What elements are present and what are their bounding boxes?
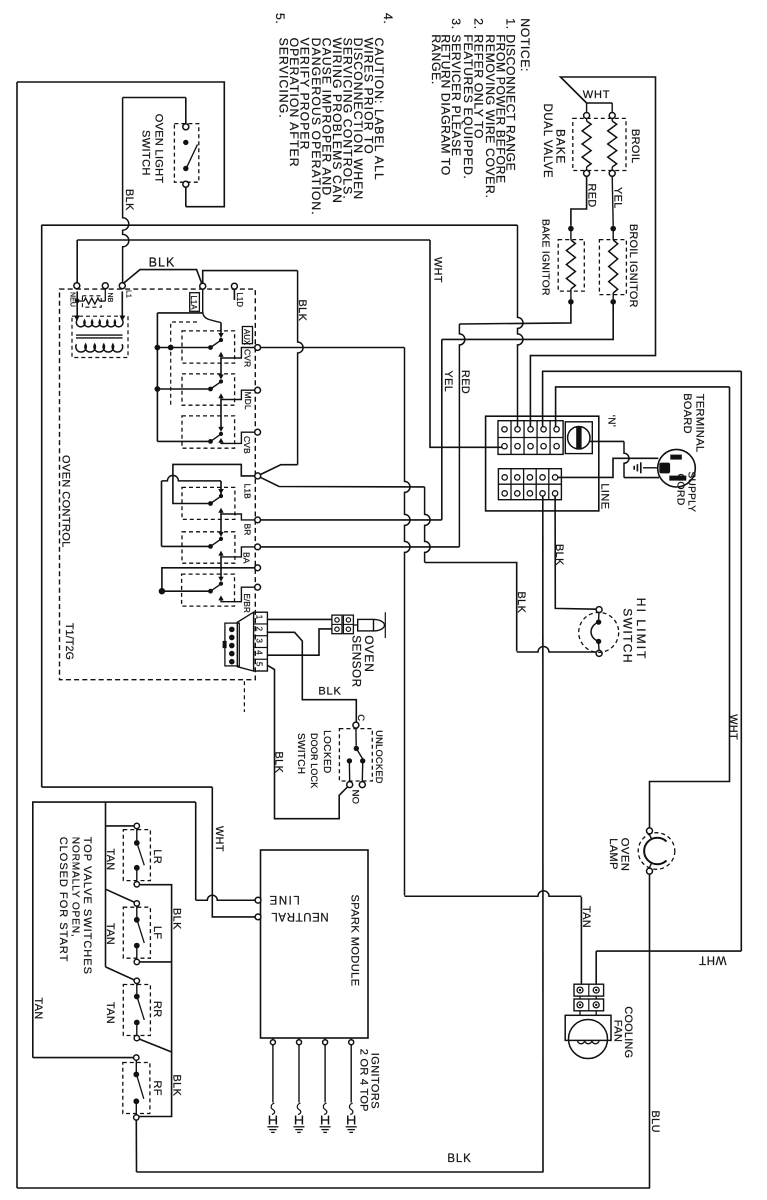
wire BLK bus L1A to L1B vertical (with hop over CVR wire): [203, 271, 298, 284]
fuse F1 between NEU and NB: [76, 291, 78, 315]
wire col4 long BLK vertical to bottom run: [542, 496, 544, 1172]
svg-text:L1: L1: [124, 290, 131, 298]
svg-text:TAN: TAN: [104, 849, 116, 871]
svg-text:NORMALLY OPEN,: NORMALLY OPEN,: [69, 837, 80, 938]
wire BA relay output: [261, 546, 460, 548]
wire L1B/BR fixed contact to BA feed (hop over feed): [220, 481, 222, 496]
transformer T1 primary coil: [76, 320, 123, 327]
oven sensor connector blocks: [332, 615, 342, 634]
wire BR relay output: [261, 519, 442, 521]
wire col5 BLK to hi-limit top: [555, 496, 596, 609]
svg-text:TAN: TAN: [580, 906, 592, 928]
wire RED vertical to BA relay (hop over YEL): [459, 324, 465, 547]
relay L1B/BR (oven control): [208, 501, 213, 506]
wire WHT right edge (col4) down to fan junction: [740, 371, 742, 951]
svg-text:BROIL IGNITOR: BROIL IGNITOR: [627, 224, 639, 308]
resistor broil ignitor: [612, 231, 614, 240]
wire L1B feed loop to relay L1B/BR pivot: [173, 464, 255, 503]
svg-text:WHT: WHT: [727, 714, 739, 740]
svg-text:RED: RED: [459, 370, 471, 394]
spark module box: [261, 850, 369, 1038]
dashed box relay E/BR: [182, 574, 235, 606]
wire L1A to AUX contact: [203, 289, 221, 323]
wire P1 pin1 to oven sensor: [267, 618, 332, 620]
wire col4 cross to right WHT run: [543, 371, 742, 426]
svg-text:CVR: CVR: [242, 349, 252, 367]
svg-text:OVEN CONTROL: OVEN CONTROL: [60, 455, 72, 548]
svg-text:OVEN: OVEN: [618, 838, 630, 872]
terminal board lower block: [498, 469, 561, 500]
svg-text:LOCKED: LOCKED: [321, 730, 332, 774]
wire L1B output to terminal board / hi-limit: [260, 477, 424, 487]
dashed box transformer: [72, 316, 128, 357]
transformer T1 core: [76, 334, 123, 336]
dashed box relay L1B/BR: [182, 487, 235, 519]
svg-text:BR: BR: [243, 524, 253, 536]
wire N terminal to supply cord (hop): [590, 440, 624, 442]
wire feed to AUX pivot: [157, 347, 210, 349]
svg-text:BLK: BLK: [318, 686, 341, 698]
svg-text:FAN: FAN: [612, 1020, 624, 1043]
wire bus A: left vertical x=41.7 down to valve-switch area: [41, 225, 43, 787]
connector P1 wire-side (5 pins): [225, 623, 239, 666]
svg-text:SPARK MODULE: SPARK MODULE: [348, 895, 360, 987]
svg-text:TERMINAL: TERMINAL: [693, 394, 705, 453]
wire top border to oven light loop: [17, 82, 224, 207]
wire col2 from bus A (hops RED YEL): [518, 225, 524, 426]
wire feed to CVB pivot: [157, 440, 210, 442]
transformer T1 secondary coil: [76, 344, 123, 352]
svg-text:2 OR 4 TOP: 2 OR 4 TOP: [357, 1049, 369, 1112]
wire bus B (neutral WHT) y=240: [77, 239, 430, 241]
oven sensor probe: [353, 624, 357, 626]
svg-text:L1A: L1A: [189, 296, 198, 311]
svg-text:BLK: BLK: [515, 592, 527, 614]
node bake ignitor top: [568, 226, 574, 232]
svg-text:E/BR: E/BR: [242, 594, 251, 614]
svg-text:SERVICING.: SERVICING.: [277, 38, 291, 119]
svg-text:DOOR LOCK: DOOR LOCK: [309, 733, 319, 788]
svg-text:YEL: YEL: [611, 187, 623, 209]
label AUX: [242, 327, 252, 344]
svg-text:BLK: BLK: [149, 256, 176, 270]
svg-text:3: 3: [255, 638, 264, 643]
valve switch RF: [134, 1055, 139, 1060]
svg-text:BROIL: BROIL: [629, 129, 641, 164]
terminal L1D: [231, 283, 237, 289]
wire TAN diag to LF: [106, 889, 135, 902]
dashed box relay BA: [182, 532, 235, 563]
wire RF bottom to bottom BLK run: [135, 1120, 137, 1172]
wire P1 pin4 to oven sensor: [267, 629, 332, 655]
svg-text:LF: LF: [151, 926, 163, 939]
svg-text:BLK: BLK: [447, 1153, 471, 1165]
node broil ignitor bottom: [610, 299, 616, 305]
wire WHT top run (valve to right side): [530, 77, 655, 427]
dashed circle hi limit: [579, 612, 619, 652]
svg-text:BLK: BLK: [553, 544, 565, 566]
terminal board upper block: [498, 421, 563, 455]
wire L1 to transformer: [121, 291, 123, 315]
terminal circle (E/BR feed): [255, 565, 261, 571]
svg-text:NEUTRAL: NEUTRAL: [271, 910, 329, 922]
wire LR bottom to BLK chain: [139, 885, 172, 1117]
resistor broil valve coil: [611, 118, 613, 121]
svg-text:RED: RED: [585, 184, 597, 208]
dashed box relay MDL: [182, 374, 235, 405]
terminal NEUTRAL (spark module): [255, 914, 261, 920]
svg-text:NO: NO: [349, 790, 360, 805]
terminal L1A with label box: [200, 283, 206, 289]
svg-text:5: 5: [255, 662, 264, 667]
svg-text:NB: NB: [106, 293, 113, 303]
svg-text:CVB: CVB: [242, 436, 252, 454]
svg-text:CLOSED FOR START: CLOSED FOR START: [57, 837, 69, 963]
svg-text:SWITCH: SWITCH: [621, 608, 635, 664]
wire YEL broil valve to ignitor: [612, 176, 613, 226]
valve switch LR: [134, 823, 139, 828]
terminal LINE (spark module): [255, 897, 261, 903]
wire col5 cross to oven lamp run: [556, 387, 730, 427]
wire bottom border: [17, 1187, 650, 1189]
wire CVR output long vertical: [261, 347, 405, 349]
wire bake ignitor to RED run: [459, 304, 571, 324]
wire BLK bus from L1 to L1A: [124, 270, 202, 284]
svg-text:TAN: TAN: [104, 923, 116, 945]
svg-text:NEU: NEU: [69, 292, 76, 307]
wire bottom BLK run: [137, 1171, 544, 1173]
wire left feed bus (L1A to relay pivots): [157, 312, 202, 314]
ground symbol (supply cord): [643, 467, 659, 469]
svg-text:BLK: BLK: [296, 300, 308, 322]
transformer T1 primary arrows: [74, 316, 80, 322]
svg-text:WHT: WHT: [432, 257, 444, 283]
svg-text:2.: 2.: [471, 18, 485, 29]
dashed box oven light switch: [174, 124, 198, 183]
wire hi limit bottom to L1B wire (hop over BLK): [517, 647, 597, 653]
dashed box dual valve: [573, 118, 626, 170]
dashed box relay AUX/CVR: [182, 331, 235, 363]
wire RR bottom to chain: [140, 1039, 172, 1052]
svg-text:BAKE: BAKE: [554, 129, 568, 164]
svg-text:SWITCH: SWITCH: [295, 733, 306, 774]
cooling fan motor: [565, 1015, 611, 1040]
dashed box broil ignitor: [599, 240, 626, 295]
svg-text:SENSOR: SENSOR: [349, 635, 362, 687]
svg-text:UNLOCKED: UNLOCKED: [374, 730, 384, 784]
svg-text:LINE: LINE: [268, 893, 300, 905]
bake/broil valve top bar: [587, 102, 613, 104]
relay AUX/CVR (oven control): [208, 345, 213, 350]
node bake ignitor bottom: [568, 299, 574, 305]
wire big-box feed to RF top: [33, 1057, 134, 1059]
svg-text:BA: BA: [242, 552, 252, 564]
wire NEUTRAL from WHT run: [212, 787, 255, 917]
dashed box OVEN CONTROL: [60, 289, 256, 680]
wire oven lamp to BLU junction: [649, 874, 651, 1188]
wire broil ignitor to YEL run: [442, 304, 613, 339]
svg-text:AUX: AUX: [242, 329, 251, 346]
terminal N cell: [565, 422, 592, 454]
dashed mech linkage box (upper relays): [171, 322, 197, 405]
oven lamp: [647, 828, 653, 834]
svg-text:3.: 3.: [449, 18, 463, 29]
cooling fan terminal blocks: [595, 951, 597, 984]
relay BA (oven control): [208, 544, 213, 549]
wire BLK from oven light switch to L1 (with hops): [123, 98, 129, 283]
terminal board box: [486, 416, 599, 511]
svg-text:NOTICE:: NOTICE:: [518, 18, 532, 72]
svg-text:TAN: TAN: [32, 998, 44, 1020]
svg-text:LAMP: LAMP: [607, 838, 619, 870]
wire TAN diag to RR: [106, 967, 135, 980]
svg-text:RR: RR: [151, 1001, 163, 1018]
wire LF bottom to chain: [140, 961, 172, 963]
terminal NB: [102, 283, 108, 289]
svg-text:4.: 4.: [381, 13, 395, 24]
dashed box bake ignitor: [558, 240, 584, 292]
wire oven lamp feed (col5 run): [650, 387, 730, 828]
svg-text:1.: 1.: [504, 18, 518, 29]
svg-text:OVEN LIGHT: OVEN LIGHT: [153, 114, 165, 184]
node broil ignitor top: [610, 226, 616, 232]
svg-text:RF: RF: [151, 1081, 163, 1096]
svg-text:WHT: WHT: [699, 954, 727, 966]
svg-text:TAN: TAN: [104, 1002, 116, 1024]
svg-text:1: 1: [255, 615, 264, 620]
ignitor symbols: [272, 1045, 274, 1103]
valve switch box top wire: [33, 802, 196, 1058]
wire LINE from valve switches (hop over WHT): [195, 802, 197, 900]
svg-text:‘N’: ‘N’: [606, 415, 617, 428]
wire feed to MDL pivot: [157, 388, 210, 390]
svg-text:C: C: [355, 714, 366, 721]
svg-text:YEL: YEL: [442, 371, 454, 393]
svg-text:RANGE.: RANGE.: [429, 34, 443, 84]
relay MDL (oven control): [208, 387, 213, 392]
svg-text:MDL: MDL: [243, 392, 253, 410]
dashed circle oven lamp: [638, 833, 675, 870]
wire E/BR feed from circle: [162, 568, 255, 591]
supply cord plug: [658, 449, 696, 487]
wire P1 pin2 to door lock C: [267, 632, 356, 722]
svg-text:SWITCH: SWITCH: [140, 130, 152, 176]
connector P1 plug body: [237, 612, 253, 671]
spark module output terminals: [272, 1038, 274, 1040]
relay E/BR (oven control): [208, 589, 213, 594]
dashed box relay CVB: [182, 416, 235, 448]
svg-text:2: 2: [255, 627, 264, 632]
svg-text:BLK: BLK: [123, 189, 135, 211]
terminal NEU: [74, 283, 80, 289]
wire LINE terminals to supply cord: [558, 458, 659, 477]
svg-text:WHT: WHT: [213, 826, 225, 852]
svg-text:BAKE IGNITOR: BAKE IGNITOR: [539, 219, 550, 296]
svg-text:BLK: BLK: [170, 1075, 182, 1097]
svg-text:L1D: L1D: [235, 293, 244, 308]
svg-text:5.: 5.: [273, 13, 287, 24]
svg-text:LINE: LINE: [598, 483, 610, 509]
dashed box door lock switch: [339, 729, 372, 781]
oven light switch: [185, 187, 187, 207]
wire bus A horizontal y=225 to terminal board col2: [42, 224, 518, 226]
valve switch LF: [134, 901, 139, 906]
svg-text:HI LIMIT: HI LIMIT: [634, 598, 648, 661]
relay CVB (oven control): [208, 439, 213, 444]
resistor bake ignitor: [570, 231, 572, 240]
svg-text:LR: LR: [151, 849, 163, 864]
wire TAN bus: [105, 802, 107, 967]
svg-text:BOARD: BOARD: [681, 393, 693, 434]
terminal L1B circle: [255, 473, 261, 479]
svg-text:BLU: BLU: [649, 1111, 661, 1133]
svg-text:BLK: BLK: [273, 752, 285, 774]
svg-text:DUAL VALVE: DUAL VALVE: [541, 104, 553, 179]
wire WHT from bus A to spark neutral: [42, 786, 213, 788]
wire WHT vertical to terminal board: [430, 240, 504, 447]
svg-text:OVEN: OVEN: [362, 635, 376, 673]
wire fan/lamp junction horizontal: [596, 950, 741, 952]
wire CVR output to cooling fan (TAN): [580, 897, 582, 984]
resistor bake valve coil: [586, 118, 588, 121]
svg-text:BLK: BLK: [170, 908, 182, 930]
svg-text:L1B: L1B: [242, 484, 252, 500]
terminal L1: [119, 283, 125, 289]
connector P1 pin housing: [254, 612, 268, 671]
wire RED bake valve to ignitor: [571, 176, 587, 226]
svg-text:WHT: WHT: [583, 89, 610, 101]
door lock switch: [353, 722, 359, 728]
svg-text:4: 4: [255, 650, 264, 655]
svg-text:TOP VALVE SWITCHES: TOP VALVE SWITCHES: [81, 837, 93, 975]
svg-text:T1/T2G: T1/T2G: [63, 623, 75, 660]
valve switch RR: [134, 978, 139, 983]
hi limit switch: [596, 607, 602, 613]
wire P1 pin5 to door lock NO side: [267, 665, 348, 818]
wire YEL vertical to BR relay: [441, 339, 443, 520]
wire left border (neutral return): [16, 82, 18, 1188]
svg-text:CORD: CORD: [675, 474, 687, 506]
